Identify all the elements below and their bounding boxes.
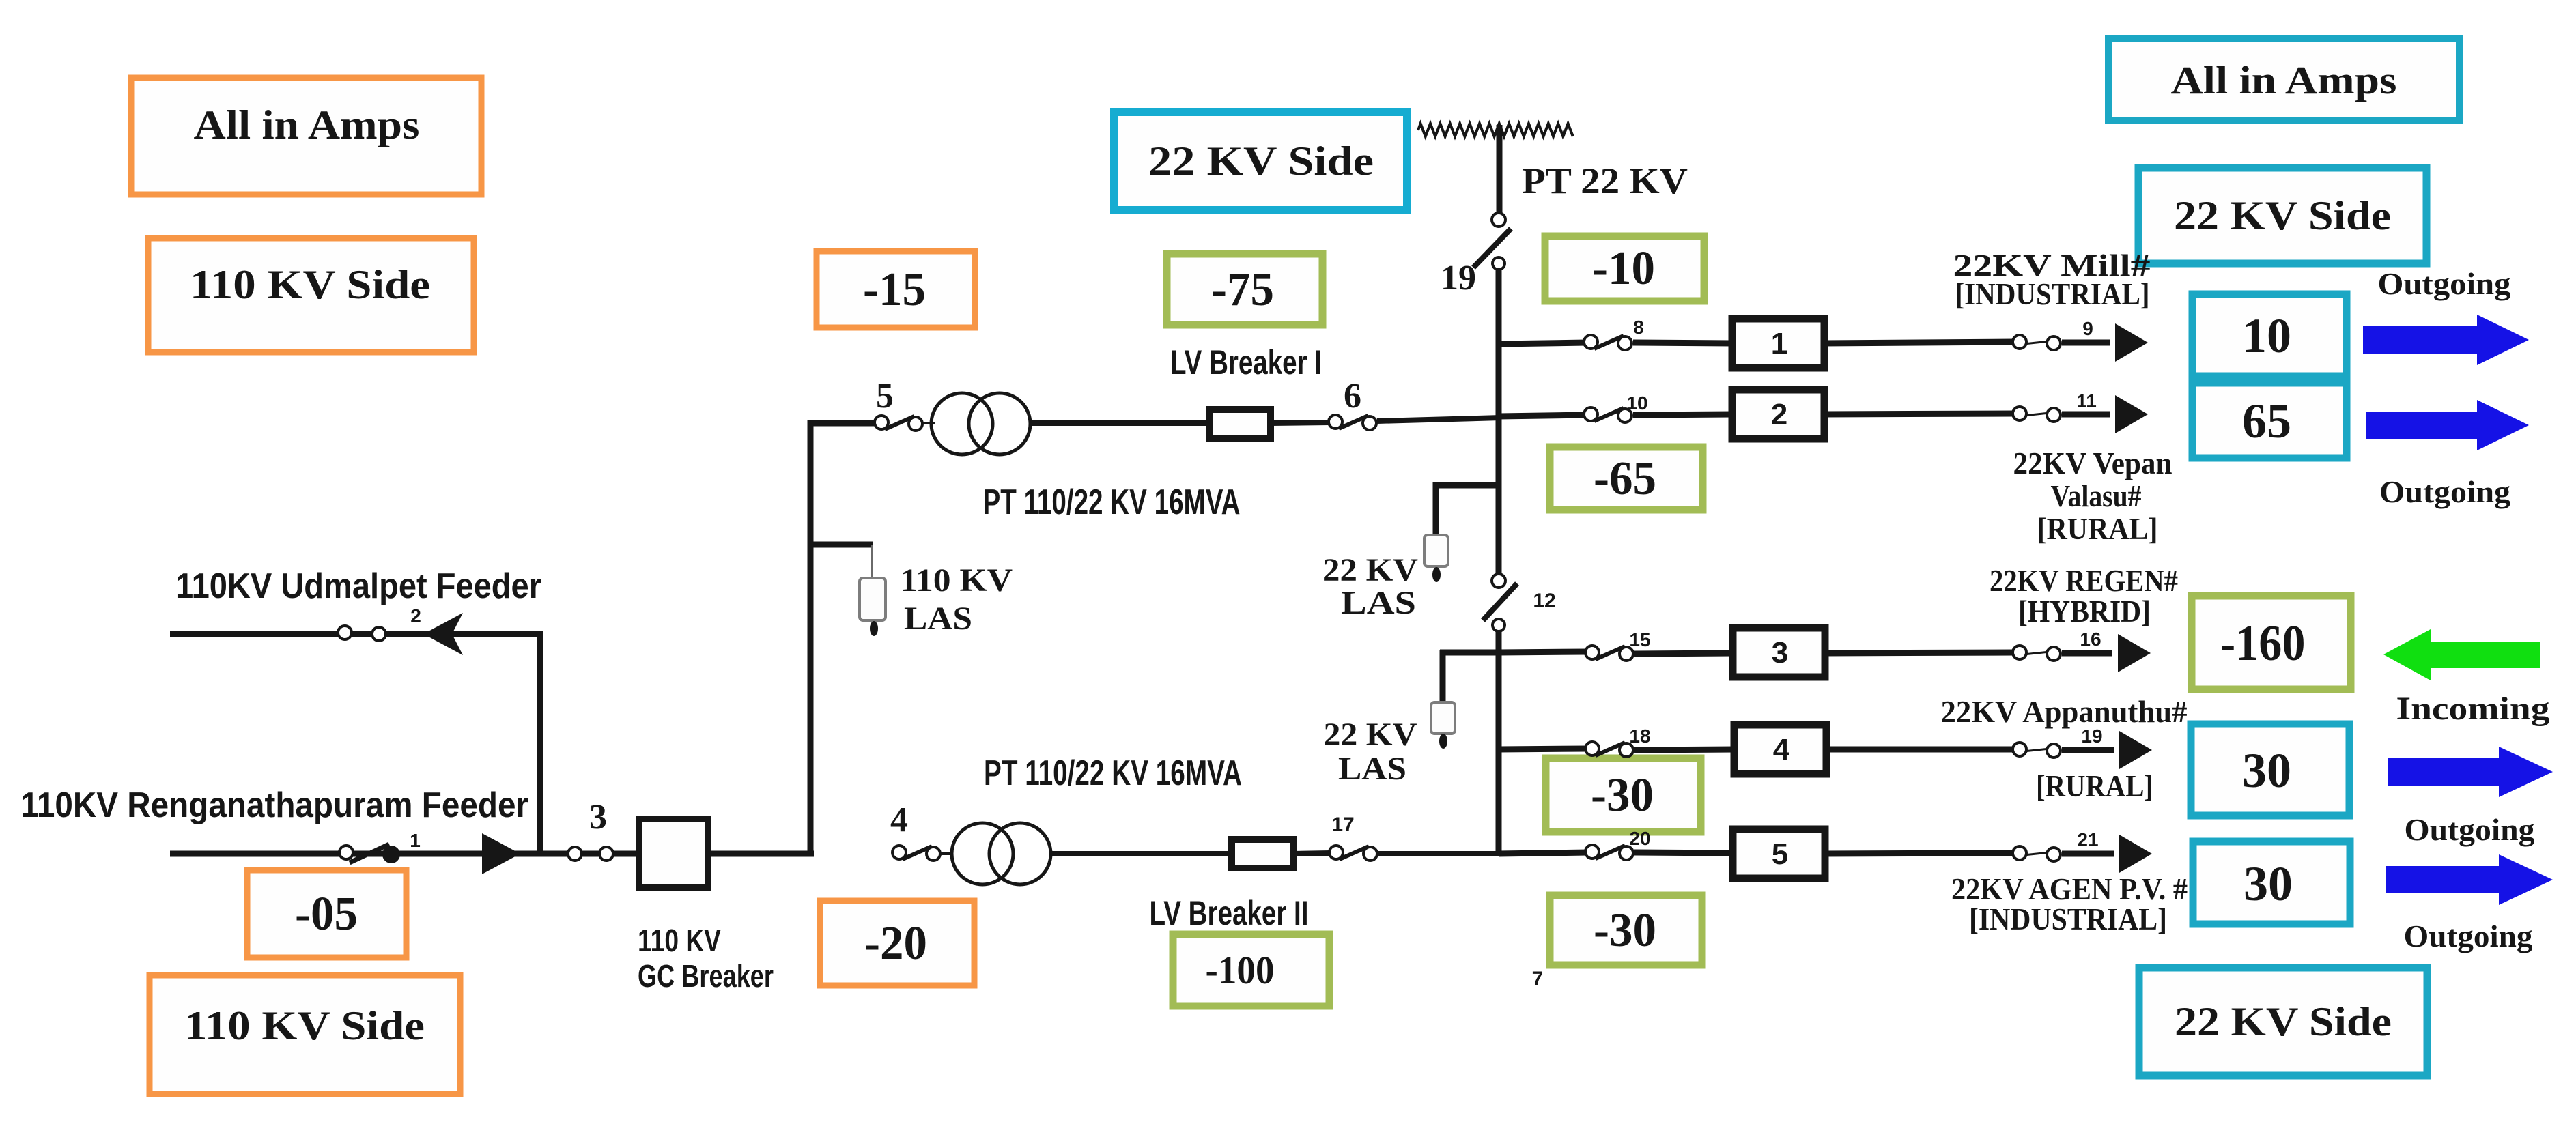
- svg-text:5: 5: [1772, 837, 1788, 871]
- svg-text:9: 9: [2082, 318, 2093, 339]
- svg-text:-30: -30: [1594, 904, 1656, 957]
- switch 19 on 22KV bus (open): [1492, 213, 1505, 227]
- svg-text:-75: -75: [1211, 263, 1274, 316]
- svg-text:PT 110/22 KV 16MVA: PT 110/22 KV 16MVA: [983, 482, 1241, 522]
- disconnector 2 on Udmalpet feeder: [349, 632, 375, 635]
- wire: CB 4 to disconnector 19: [1825, 747, 2015, 753]
- flow arrow blue: feeder 5 outgoing: [2386, 854, 2553, 905]
- wire: Udmalpet feeder line: [170, 631, 540, 637]
- svg-text:[RURAL]: [RURAL]: [2036, 768, 2153, 803]
- transformer T2 PT 110/22 KV 16MVA: [952, 823, 1013, 884]
- svg-text:10: 10: [1626, 392, 1647, 414]
- svg-text:5: 5: [876, 377, 894, 416]
- svg-text:LAS: LAS: [1341, 585, 1416, 621]
- meter box -75 (LV breaker I current): [1167, 254, 1322, 325]
- svg-text:-65: -65: [1594, 452, 1656, 505]
- svg-text:-10: -10: [1592, 242, 1655, 295]
- wire: transformer 1 to LV breaker I: [1031, 420, 1211, 426]
- wire: LV breaker I to disconnector 6: [1271, 422, 1330, 423]
- wire: PT 22KV lead: [1497, 125, 1503, 214]
- meter box 10 (Mill feeder amps): [2192, 294, 2347, 376]
- wire: disconnector 8 to CB 1: [1633, 343, 1733, 343]
- breaker: LV Breaker I: [1209, 409, 1271, 438]
- legend box: 22 KV Side (right top): [2138, 168, 2426, 263]
- svg-text:65: 65: [2242, 394, 2291, 448]
- transformer T1 PT 110/22 KV 16MVA: [931, 393, 993, 455]
- disconnector 17: [1340, 846, 1369, 859]
- svg-text:22KV Appanuthu#: 22KV Appanuthu#: [1941, 694, 2188, 729]
- breaker box 4: [1734, 725, 1826, 774]
- svg-text:Outgoing: Outgoing: [2378, 266, 2511, 301]
- svg-text:110 KV: 110 KV: [900, 562, 1013, 599]
- wire: CB 5 to disconnector 21: [1824, 853, 2015, 854]
- wire: 110KV bus vertical: [808, 420, 814, 856]
- arrow: feeder 5 out: [2119, 835, 2152, 873]
- wire: bus to disconnector 15: [1499, 652, 1588, 652]
- meter box -65 (feeder 2 current): [1550, 447, 1703, 510]
- svg-text:PT 22 KV: PT 22 KV: [1522, 160, 1688, 201]
- svg-text:6: 6: [1344, 377, 1361, 416]
- svg-text:1: 1: [1771, 327, 1787, 360]
- svg-text:30: 30: [2242, 743, 2291, 798]
- svg-text:20: 20: [1629, 828, 1650, 849]
- wire: bus to disconnector 10: [1499, 415, 1587, 416]
- svg-text:LAS: LAS: [904, 601, 972, 637]
- wire: disconnector 21 to feeder 5 arrow: [2062, 851, 2114, 857]
- svg-text:[RURAL]: [RURAL]: [2037, 511, 2158, 546]
- arrow: feeder 1 out: [2115, 323, 2148, 362]
- meter box -15 (transformer 1 HV current): [817, 251, 975, 328]
- flow arrow blue: feeder 4 outgoing: [2388, 747, 2553, 797]
- arrow: power flow out Udmalpet: [423, 613, 463, 655]
- svg-text:[INDUSTRIAL]: [INDUSTRIAL]: [1955, 276, 2150, 311]
- disconnector 15: [1596, 646, 1625, 659]
- wire: 22KV bus lower section: [1496, 631, 1502, 856]
- wire: disconnector 10 to CB 2: [1633, 414, 1733, 415]
- meter box -30 (feeder 5 current): [1550, 895, 1702, 965]
- svg-text:19: 19: [1441, 259, 1476, 298]
- wire: disconnector 20 to CB 5: [1634, 852, 1734, 853]
- disconnector 8: [1594, 336, 1624, 349]
- svg-text:-20: -20: [864, 917, 927, 970]
- wire: disconnector 4 to transformer 2: [941, 852, 952, 855]
- wire: Renganathapuram feeder line: [170, 851, 642, 857]
- wire: stub to 110KV LAS: [810, 542, 873, 548]
- svg-text:22KV Vepan: 22KV Vepan: [2013, 446, 2172, 480]
- arrow: feeder 2 out: [2115, 395, 2148, 433]
- svg-text:11: 11: [2076, 390, 2097, 412]
- meter box -10 (feeder 1 current): [1545, 236, 1704, 301]
- svg-text:1: 1: [410, 830, 421, 851]
- disconnector 20: [1596, 846, 1625, 859]
- switch 1 on Renganathapuram feeder (closed): [350, 844, 389, 863]
- wire: disconnector 16 to feeder 3 arrow: [2062, 650, 2112, 657]
- svg-text:110 KV Side: 110 KV Side: [184, 1003, 425, 1048]
- svg-text:2: 2: [410, 605, 421, 626]
- wire: disconnector 6 to 22KV bus: [1377, 418, 1501, 421]
- disconnector 18: [1596, 743, 1625, 755]
- wire: disconnector 19 to feeder 4 arrow: [2062, 747, 2114, 753]
- flow arrow blue: feeder 1 outgoing: [2363, 315, 2529, 365]
- svg-text:7: 7: [1532, 968, 1544, 990]
- flow arrow blue: feeder 2 outgoing: [2366, 400, 2529, 450]
- breaker box 5: [1733, 829, 1825, 878]
- meter box 65 (Vepan Valasu feeder amps): [2192, 383, 2347, 458]
- legend box: 22 KV Side (top center): [1114, 112, 1407, 210]
- legend box: All in Amps (22KV side): [2108, 39, 2459, 121]
- wire: disconnector 9 to feeder 1 arrow: [2062, 340, 2110, 346]
- svg-text:3: 3: [589, 798, 607, 837]
- legend box: 110 KV Side (top): [148, 238, 474, 352]
- wire: CB 2 to disconnector 11: [1823, 414, 2015, 414]
- svg-text:22 KV: 22 KV: [1324, 717, 1417, 753]
- svg-text:21: 21: [2077, 829, 2098, 850]
- svg-text:-05: -05: [295, 888, 358, 940]
- disconnector 4: [903, 846, 932, 859]
- svg-text:-100: -100: [1206, 948, 1275, 992]
- disconnector 16: [2024, 652, 2050, 654]
- PT 22 KV winding (zigzag): [1418, 124, 1573, 136]
- svg-text:Outgoing: Outgoing: [2405, 812, 2535, 847]
- disconnector 21: [2024, 852, 2050, 855]
- legend box: 110 KV Side (bottom): [150, 975, 460, 1094]
- lightning arrester 22KV LAS (lower): [1431, 702, 1455, 734]
- legend box: 22 KV Side (right bottom): [2139, 968, 2427, 1076]
- svg-text:22 KV Side: 22 KV Side: [1148, 139, 1374, 184]
- wire: disconnector 15 to CB 3: [1634, 653, 1734, 654]
- svg-text:LV Breaker II: LV Breaker II: [1150, 894, 1309, 932]
- breaker box 3: [1733, 628, 1825, 677]
- breaker: 110 KV GC Breaker box: [639, 819, 708, 887]
- svg-text:[HYBRID]: [HYBRID]: [2018, 594, 2151, 629]
- svg-text:-30: -30: [1591, 769, 1654, 822]
- wire: bus to disconnector 20: [1499, 852, 1588, 854]
- legend box: All in Amps (110KV side): [131, 78, 481, 194]
- meter box -20 (transformer 2 HV current): [820, 901, 974, 985]
- svg-text:4: 4: [890, 801, 908, 839]
- svg-text:Outgoing: Outgoing: [2404, 919, 2533, 953]
- svg-text:22 KV Side: 22 KV Side: [2175, 999, 2392, 1044]
- svg-text:-160: -160: [2220, 616, 2306, 672]
- wire: disconnector 11 to feeder 2 arrow: [2062, 412, 2110, 418]
- svg-text:[INDUSTRIAL]: [INDUSTRIAL]: [1969, 902, 2167, 936]
- disconnector 9: [2024, 341, 2050, 344]
- svg-text:3: 3: [1772, 636, 1788, 669]
- svg-text:110KV Renganathapuram Feeder: 110KV Renganathapuram Feeder: [20, 786, 528, 825]
- disconnector 3 ahead of GC breaker: [582, 853, 599, 855]
- lightning arrester 110KV LAS: [860, 578, 886, 620]
- svg-text:110KV Udmalpet Feeder: 110KV Udmalpet Feeder: [175, 566, 541, 606]
- disconnector 10: [1594, 408, 1624, 421]
- meter box 30 (Appanuthu feeder amps): [2191, 724, 2349, 816]
- svg-text:15: 15: [1629, 629, 1650, 650]
- svg-text:LAS: LAS: [1338, 751, 1406, 787]
- svg-text:22 KV Side: 22 KV Side: [2174, 193, 2391, 238]
- disconnector 11: [2024, 413, 2050, 416]
- svg-text:30: 30: [2244, 856, 2293, 911]
- svg-text:12: 12: [1533, 590, 1555, 612]
- meter box -05 (Renganathapuram feeder current): [247, 870, 406, 957]
- arrow: feeder 4 out: [2119, 731, 2152, 769]
- switch 12 on 22KV bus (open): [1492, 574, 1505, 588]
- breaker box 2: [1732, 390, 1824, 439]
- svg-text:All in Amps: All in Amps: [2171, 58, 2397, 102]
- wire: 22KV bus upper section: [1496, 270, 1502, 577]
- disconnector 5: [885, 416, 914, 429]
- svg-text:16: 16: [2080, 629, 2101, 650]
- svg-text:17: 17: [1331, 813, 1354, 836]
- meter box -30 (feeder 4 current): [1546, 758, 1701, 832]
- wire: bus to disconnector 5: [808, 420, 879, 427]
- svg-text:LV Breaker I: LV Breaker I: [1170, 343, 1322, 381]
- breaker: LV Breaker II: [1232, 839, 1293, 868]
- svg-text:GC Breaker: GC Breaker: [638, 958, 774, 994]
- svg-text:Outgoing: Outgoing: [2379, 474, 2510, 509]
- wire: CB 3 to disconnector 16: [1824, 652, 2015, 653]
- wire: disconnector 18 to CB 4: [1634, 749, 1736, 750]
- meter box -160 (REGEN feeder current): [2192, 596, 2351, 689]
- meter box -100 (LV breaker II current): [1173, 934, 1329, 1006]
- wire: bus to disconnector 18: [1499, 749, 1588, 749]
- svg-text:110 KV: 110 KV: [638, 923, 721, 958]
- wire: transformer 2 to LV breaker II: [1049, 851, 1233, 856]
- wire: disconnector 5 to transformer 1: [923, 422, 935, 424]
- wire: disconnector 17 to 22KV bus: [1378, 851, 1501, 856]
- svg-text:10: 10: [2242, 308, 2291, 363]
- svg-text:22 KV: 22 KV: [1322, 552, 1418, 588]
- svg-text:22KV REGEN#: 22KV REGEN#: [1990, 563, 2178, 598]
- svg-text:8: 8: [1633, 317, 1644, 338]
- arrow: feeder 3 out: [2118, 634, 2151, 672]
- lightning arrester 22KV LAS (upper): [1424, 535, 1448, 566]
- svg-text:PT 110/22 KV 16MVA: PT 110/22 KV 16MVA: [984, 753, 1242, 793]
- flow arrow green: feeder 3 incoming: [2383, 629, 2540, 680]
- disconnector 19 (feeder 4): [2024, 749, 2050, 751]
- wire: stub to 22KV LAS (lower): [1440, 650, 1501, 656]
- svg-text:110 KV Side: 110 KV Side: [190, 262, 430, 307]
- svg-text:Incoming: Incoming: [2396, 691, 2550, 727]
- wire: stub to 22KV LAS (upper): [1433, 482, 1501, 489]
- meter box 30 (AGEN P.V. feeder amps): [2193, 841, 2350, 924]
- svg-text:4: 4: [1773, 733, 1790, 766]
- disconnector 6: [1339, 416, 1368, 429]
- svg-text:18: 18: [1629, 725, 1650, 747]
- svg-text:2: 2: [1771, 398, 1787, 431]
- wire: GC breaker to 110KV bus: [708, 851, 814, 857]
- svg-text:-15: -15: [863, 263, 926, 316]
- wire: LV breaker II to disconnector 17: [1293, 853, 1331, 854]
- wire: bus to disconnector 8: [1499, 343, 1587, 344]
- wire: CB 1 to disconnector 9: [1823, 342, 2015, 343]
- arrow: power flow into station: [482, 833, 520, 874]
- svg-text:All in Amps: All in Amps: [194, 102, 420, 147]
- wire: corner down to 110KV bus tie: [537, 631, 543, 854]
- breaker box 1: [1732, 319, 1824, 368]
- svg-text:Valasu#: Valasu#: [2051, 478, 2142, 513]
